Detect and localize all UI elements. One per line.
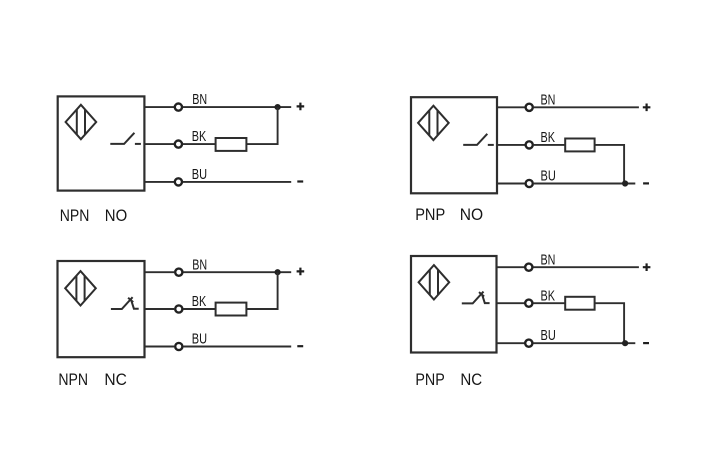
wire BN stub (box to terminal) [497,106,525,108]
svg-text:BK: BK [192,128,207,145]
wire BU stub (box to terminal) [144,181,174,183]
svg-text:BN: BN [541,251,556,268]
terminal circle BN [526,104,533,111]
terminal circle BK [526,141,533,148]
wire BU to supply - [183,346,291,348]
proximity sensor diamond symbol [419,265,450,299]
svg-text:BU: BU [541,327,556,344]
wire BU stub (box to terminal) [497,342,525,344]
wire BU stub (box to terminal) [497,183,525,185]
wire resistor to junction, up to BN [246,107,277,144]
terminal circle BU [526,180,533,187]
terminal circle BU [175,178,182,185]
NC switch contact [462,292,490,304]
wire BU stub (box to terminal) [145,346,175,348]
label BU [541,168,556,185]
plus terminal [643,263,651,271]
wire BU to supply - [534,183,636,185]
junction dot on BU [622,340,628,346]
label BK [541,287,556,304]
svg-text:NPN: NPN [60,206,90,225]
label BU [192,166,207,183]
svg-text:BU: BU [192,166,207,183]
terminal circle BU [525,340,532,347]
svg-text:NC: NC [104,370,127,389]
svg-text:BN: BN [192,256,207,273]
svg-text:BK: BK [541,287,556,304]
wire BN to supply + [533,266,639,268]
svg-text:BU: BU [192,331,207,348]
wire BN stub (box to terminal) [145,271,175,273]
label BN [192,91,207,108]
caption PNP NO [415,205,483,224]
svg-text:BN: BN [192,91,207,108]
wire BN to supply + [183,271,291,273]
minus terminal [643,182,649,184]
junction dot on BN [275,269,281,275]
svg-text:NO: NO [105,206,127,225]
terminal circle BK [525,300,532,307]
NO switch contact [463,134,494,145]
plus terminal [297,103,305,111]
sensor body box (NPN NC) [58,261,145,357]
caption PNP NC [415,370,482,389]
wire resistor to junction, down to BU [595,145,625,184]
wire BN to supply + [534,106,639,108]
label BN [541,251,556,268]
svg-text:BU: BU [541,168,556,185]
wire BK stub (box to terminal) [497,144,525,146]
terminal circle BK [175,305,182,312]
wire BK stub (box to terminal) [497,302,525,304]
minus terminal [297,180,303,182]
caption NPN NC [58,370,127,389]
svg-text:BN: BN [541,91,556,108]
sensor body box (PNP NC) [411,256,497,353]
svg-text:NC: NC [460,370,482,389]
label BK [192,128,207,145]
svg-text:PNP: PNP [415,370,444,389]
label BK [192,293,207,310]
proximity sensor diamond symbol [66,105,97,139]
wire BK to resistor [183,308,216,310]
caption NPN NO [60,206,127,225]
wire BK to resistor [533,302,565,304]
junction dot on BN [275,104,281,110]
terminal circle BK [175,141,182,148]
sensor body box (NPN NO) [58,96,145,190]
proximity sensor diamond symbol [418,106,449,140]
svg-text:BK: BK [192,293,207,310]
label BN [192,256,207,273]
label BU [541,327,556,344]
svg-text:NO: NO [460,205,483,224]
label BU [192,331,207,348]
terminal circle BN [175,269,182,276]
label BN [541,91,556,108]
wire BU to supply - [183,181,291,183]
resistor R (load) [565,139,594,152]
sensor body box (PNP NO) [411,97,497,193]
proximity sensor diamond symbol [65,271,96,305]
wire BN stub (box to terminal) [144,106,174,108]
resistor R (load) [565,297,594,310]
wire resistor to junction, down to BU [595,303,625,343]
svg-text:NPN: NPN [58,370,88,389]
svg-text:PNP: PNP [415,205,445,224]
junction dot on BU [622,180,628,186]
wire BK stub (box to terminal) [145,308,175,310]
terminal circle BU [175,343,182,350]
minus terminal [297,345,303,347]
wire BN stub (box to terminal) [497,266,525,268]
wire BN to supply + [183,106,291,108]
svg-text:BK: BK [541,129,556,146]
terminal circle BN [525,264,532,271]
resistor R (load) [216,303,247,316]
minus terminal [643,342,649,344]
wire resistor to junction, up to BN [246,272,277,309]
label BK [541,129,556,146]
NO switch contact [110,133,141,144]
resistor R (load) [216,138,247,151]
wire BK to resistor [534,144,566,146]
terminal circle BN [175,104,182,111]
NC switch contact [111,297,139,309]
plus terminal [643,104,651,112]
wire BK stub (box to terminal) [144,143,174,145]
wire BU to supply - [533,342,635,344]
plus terminal [297,268,305,276]
wire BK to resistor [183,143,216,145]
